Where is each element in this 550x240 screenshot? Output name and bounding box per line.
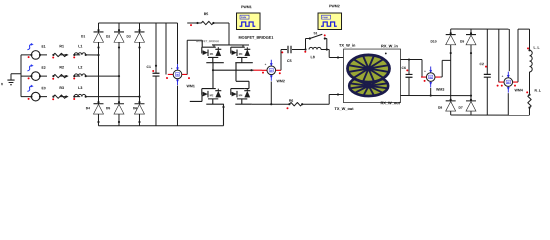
svg-text:C5: C5: [287, 59, 292, 63]
svg-text:RX_W_out: RX_W_out: [380, 100, 400, 105]
wire bridge DC minus stub: [222, 104, 224, 126]
svg-text:R3: R3: [59, 86, 64, 90]
wire WM4 left riser: [498, 29, 500, 82]
resistor R1: [52, 44, 67, 58]
wire bridge mid rail B: [236, 80, 249, 82]
svg-text:WM2: WM2: [276, 79, 284, 83]
ground: [1, 74, 21, 87]
svg-text:PWM2: PWM2: [329, 4, 340, 8]
svg-text:D4: D4: [86, 106, 90, 110]
wire load jumper: [518, 29, 530, 82]
coil TX wheel: [347, 55, 389, 82]
svg-text:D7: D7: [458, 106, 462, 110]
svg-text:MOSFET_BRIDGE: MOSFET_BRIDGE: [196, 39, 219, 43]
transistor M1: [202, 45, 224, 70]
svg-text:L8: L8: [311, 55, 315, 59]
svg-text:L_L: L_L: [534, 46, 540, 50]
wattmeter WM4: [499, 72, 523, 93]
transistor M3: [231, 45, 253, 81]
diode D1: [81, 29, 104, 49]
source E2: [27, 64, 45, 80]
svg-text:E2: E2: [41, 66, 45, 70]
inductor L2: [73, 66, 87, 80]
svg-text:S1: S1: [314, 31, 318, 35]
label RX_W_out: [380, 100, 400, 105]
wire phase 2: [21, 75, 120, 77]
svg-text:M1: M1: [210, 52, 214, 56]
diode D3: [127, 29, 145, 49]
wire phase 3: [21, 96, 141, 98]
svg-text:L3: L3: [78, 86, 82, 90]
diode D4: [86, 101, 104, 123]
svg-text:D8: D8: [438, 106, 442, 110]
svg-text:+: +: [171, 67, 173, 71]
wire WM4 red dots: [497, 85, 516, 87]
svg-text:D5: D5: [106, 106, 110, 110]
wire leg 3: [138, 23, 140, 126]
wire WM4 bottom: [507, 93, 509, 115]
svg-text:R5: R5: [204, 12, 209, 16]
svg-text:R6: R6: [289, 99, 293, 103]
diode D6: [133, 101, 145, 123]
svg-text:E3: E3: [41, 86, 45, 90]
wire right bridge bottom bus: [451, 114, 530, 116]
inductor L1: [73, 44, 87, 58]
svg-text:D3: D3: [127, 34, 131, 38]
svg-text:D1: D1: [81, 34, 85, 38]
resistor R5: [187, 12, 229, 45]
source E3: [27, 85, 45, 101]
svg-text:E1: E1: [42, 45, 46, 49]
diode D10: [431, 32, 456, 45]
inductor L8: [304, 47, 328, 59]
svg-text:+: +: [424, 69, 426, 73]
capacitor C6: [401, 60, 412, 96]
wire L to R: [528, 72, 530, 95]
source E1: [27, 43, 45, 59]
wire right bridge top bus: [451, 28, 510, 30]
wire bridge top rail: [212, 44, 249, 46]
svg-text:W: W: [270, 69, 273, 73]
wire TX return: [252, 93, 344, 104]
capacitor C2: [479, 29, 490, 115]
resistor R_L: [526, 89, 541, 109]
svg-text:C2: C2: [479, 62, 483, 66]
svg-text:R_L: R_L: [534, 89, 540, 93]
wire RX top: [400, 58, 422, 77]
wattmeter WM1: [168, 64, 195, 88]
wire WM1 left lead node: [166, 77, 190, 79]
wire bridge mid rail A: [212, 69, 254, 71]
PWM1 block: [237, 5, 261, 29]
svg-text:+: +: [265, 62, 267, 66]
transistor M2: [190, 70, 224, 104]
label MOSFET_BRIDGE1: [239, 36, 274, 40]
label TX_W_out: [334, 106, 354, 111]
diode D9: [460, 32, 476, 45]
svg-text:R2: R2: [59, 66, 64, 70]
WPT coil block: [343, 49, 400, 103]
wire WM2 bottom: [270, 81, 272, 105]
svg-text:0: 0: [1, 82, 3, 86]
svg-text:MOSFET_BRIDGE1: MOSFET_BRIDGE1: [239, 36, 274, 40]
capacitor C1: [146, 23, 159, 126]
wire to TX: [327, 50, 344, 59]
wire rectifier top bus: [99, 22, 178, 24]
wire WM4 top drop: [508, 29, 510, 71]
svg-text:L1: L1: [78, 44, 82, 48]
svg-text:M3: M3: [239, 52, 243, 56]
svg-text:RX_W_in: RX_W_in: [381, 43, 398, 48]
wire WM3 bottom: [424, 80, 432, 97]
wire RX bottom: [400, 94, 472, 96]
svg-text:R1: R1: [59, 44, 64, 48]
wattmeter WM2: [262, 60, 285, 83]
wire WM1 bottom: [176, 85, 178, 125]
diode D7: [458, 99, 476, 111]
svg-text:W: W: [507, 80, 510, 84]
wire bridge out red: [253, 70, 264, 73]
wire WM1 left rail: [165, 23, 167, 75]
inductor L3: [73, 86, 87, 100]
svg-text:M4: M4: [239, 93, 243, 97]
capacitor C5: [281, 46, 306, 63]
wire leg 1: [97, 23, 99, 126]
switch S1: [304, 31, 327, 53]
svg-text:W: W: [429, 75, 432, 79]
PWM2 block: [318, 4, 342, 29]
resistor R6: [286, 99, 303, 110]
wire WM1 right riser: [187, 40, 202, 74]
svg-text:TX_W_in: TX_W_in: [339, 43, 356, 48]
label TX_W_in: [339, 43, 356, 48]
wire rectifier bottom bus: [98, 125, 223, 127]
svg-text:WM4: WM4: [514, 88, 522, 92]
diode D8: [438, 99, 456, 111]
svg-text:L2: L2: [78, 66, 82, 70]
svg-text:M2: M2: [210, 93, 214, 97]
wire WM3 right riser: [440, 60, 450, 77]
svg-text:C1: C1: [146, 65, 150, 69]
wire leg 2: [118, 23, 120, 126]
diode D5: [106, 101, 124, 123]
wire R_L bottom: [528, 108, 530, 116]
svg-text:D9: D9: [460, 39, 464, 43]
svg-text:C6: C6: [401, 66, 405, 70]
wire WM2 right riser: [280, 50, 282, 71]
diode D2: [106, 29, 124, 49]
wattmeter WM3: [421, 67, 444, 92]
svg-text:WM1: WM1: [186, 84, 194, 88]
svg-text:PWM1: PWM1: [241, 5, 252, 9]
transistor M4: [231, 81, 252, 104]
label RX_W_in: [381, 43, 398, 48]
wire right leg D10: [450, 29, 452, 115]
wire bridge DC plus entry: [201, 40, 203, 47]
label MOSFET_BRIDGE: [196, 39, 219, 43]
svg-text:PWM: PWM: [241, 17, 247, 19]
wire phase 1: [21, 54, 100, 56]
svg-text:D6: D6: [133, 106, 137, 110]
svg-text:TX_W_out: TX_W_out: [334, 106, 354, 111]
resistor R3: [52, 86, 67, 100]
svg-text:D2: D2: [106, 34, 110, 38]
svg-text:D10: D10: [431, 39, 437, 43]
svg-text:+: +: [502, 74, 504, 78]
coil RX wheel: [349, 76, 388, 96]
resistor R2: [52, 66, 67, 80]
svg-text:W: W: [176, 73, 179, 77]
wire left source bus: [20, 55, 22, 97]
wire DC plus drop: [177, 23, 179, 64]
inductor L_L: [527, 46, 540, 72]
wire right leg D9: [470, 29, 472, 115]
svg-text:PWM: PWM: [322, 17, 328, 19]
svg-text:WM3: WM3: [436, 88, 444, 92]
